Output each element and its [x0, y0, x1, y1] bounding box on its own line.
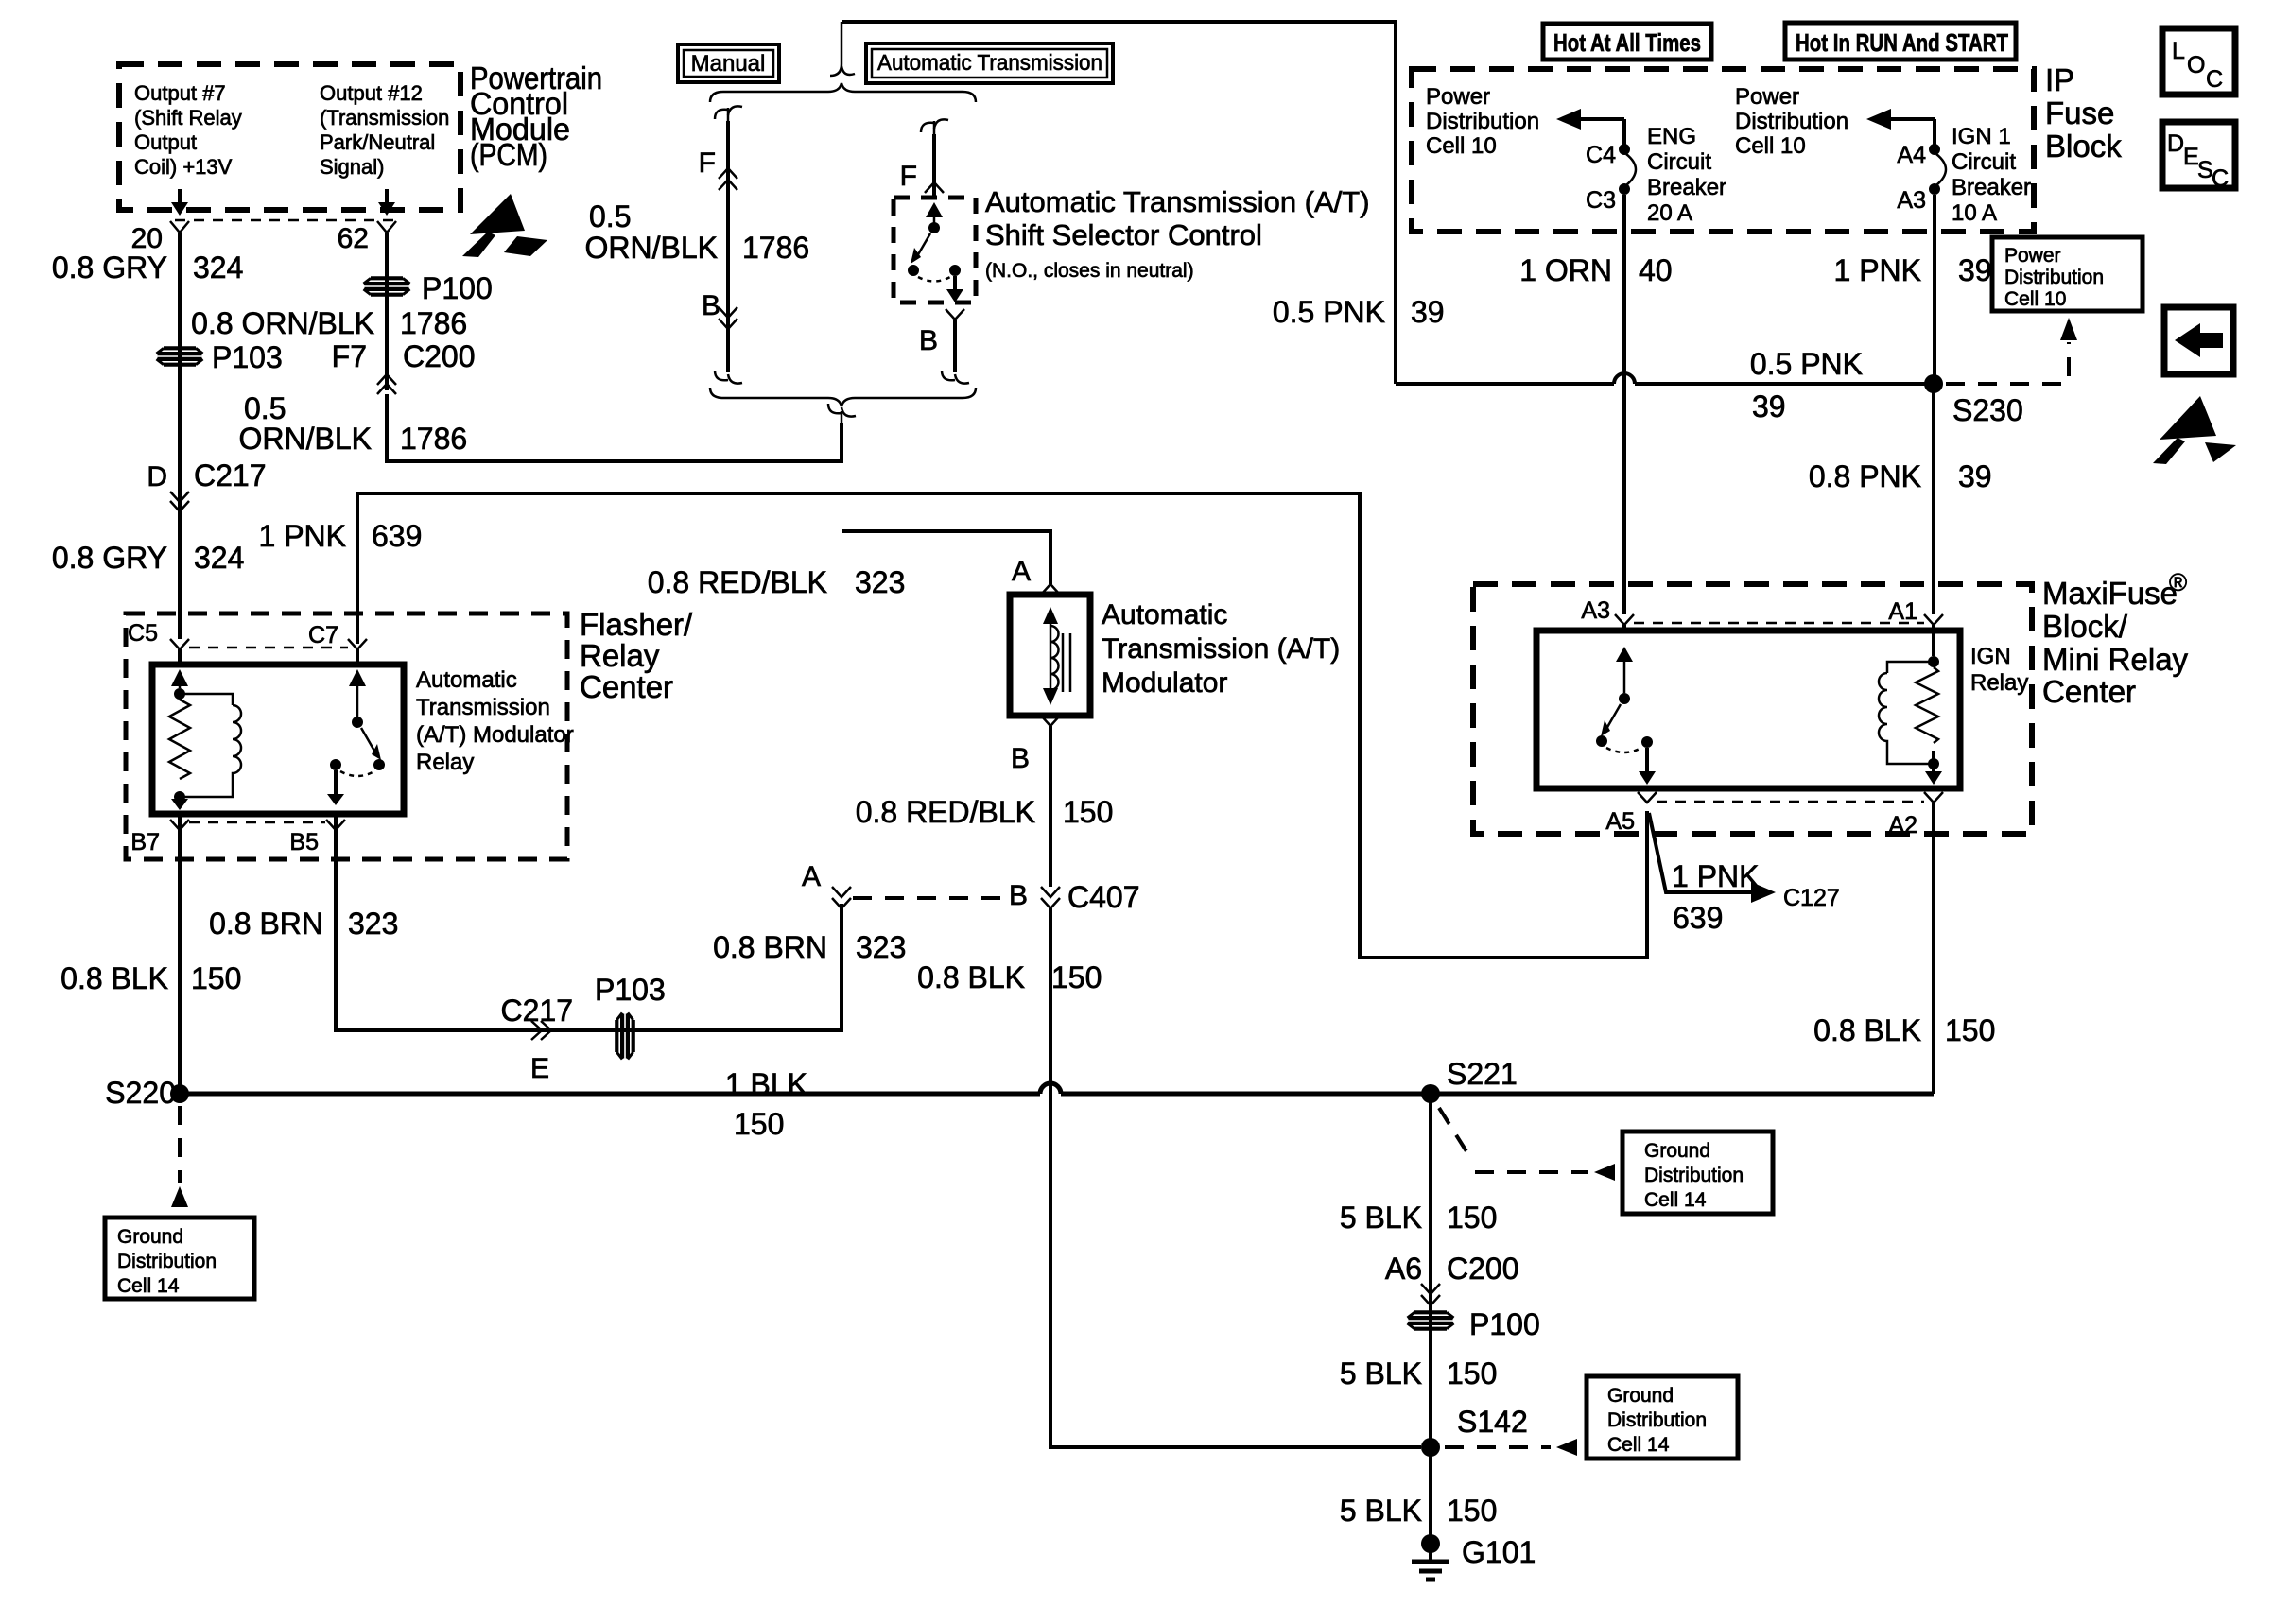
svg-text:Manual: Manual: [691, 51, 766, 77]
svg-text:C: C: [2212, 165, 2229, 192]
svg-text:0.8 BRN: 0.8 BRN: [209, 907, 323, 941]
B chevron (manual): [719, 307, 737, 329]
svg-text:L: L: [2172, 38, 2185, 64]
svg-text:Center: Center: [2042, 674, 2136, 709]
Flasher Relay Center label: [580, 607, 693, 704]
svg-text:C217: C217: [501, 993, 574, 1028]
AT branch wire lower: [953, 323, 957, 372]
svg-text:150: 150: [1051, 960, 1102, 994]
flasher top pin dashed line: [189, 647, 348, 649]
svg-text:C5: C5: [128, 620, 158, 647]
svg-text:Distribution: Distribution: [1426, 109, 1539, 134]
svg-text:Distribution: Distribution: [2004, 267, 2104, 288]
svg-text:0.5 PNK: 0.5 PNK: [1273, 295, 1385, 329]
svg-text:Relay: Relay: [580, 638, 660, 673]
svg-text:B5: B5: [289, 829, 319, 855]
svg-text:Output: Output: [134, 130, 197, 154]
svg-text:S142: S142: [1457, 1405, 1528, 1439]
svg-text:Cell 14: Cell 14: [1607, 1434, 1670, 1456]
wire 0.8 BRN 323 from B5: [336, 814, 842, 1030]
svg-text:C200: C200: [403, 339, 476, 373]
IGN Relay label: [1970, 644, 2028, 696]
wire 5 BLK 150 from S221 down: [1429, 1094, 1432, 1544]
svg-text:Distribution: Distribution: [1644, 1165, 1744, 1186]
relay label text: [416, 667, 574, 775]
Manual branch wire: [726, 121, 730, 372]
dashed ground ref from S221: [1439, 1108, 1588, 1172]
top bus wire: [842, 22, 1396, 384]
dashed ground ref from S142: [1445, 1445, 1551, 1449]
ground G101: [1412, 1534, 1536, 1580]
svg-text:E: E: [530, 1053, 549, 1084]
svg-text:F7: F7: [332, 339, 367, 373]
svg-text:Output #12: Output #12: [320, 81, 423, 105]
svg-text:324: 324: [193, 251, 243, 285]
PCM label: [470, 60, 602, 172]
svg-text:S220: S220: [105, 1076, 176, 1110]
svg-text:0.5 PNK: 0.5 PNK: [1750, 347, 1863, 381]
wire 0.5 PNK 39 horizontal with hop over ENG wire: [1396, 373, 1934, 384]
svg-text:0.8 BLK: 0.8 BLK: [917, 960, 1025, 994]
svg-text:Cell 10: Cell 10: [1426, 133, 1497, 159]
svg-text:P103: P103: [595, 973, 666, 1007]
svg-text:150: 150: [1063, 795, 1113, 829]
svg-text:1 PNK: 1 PNK: [1834, 253, 1921, 287]
svg-text:5 BLK: 5 BLK: [1340, 1356, 1422, 1391]
A5 stub to C127 arrow: [1649, 813, 1840, 935]
wire to Manual/AT brace (0.5 ORN/BLK 1786): [387, 394, 842, 461]
top brace: [710, 83, 976, 102]
bottom brace: [710, 388, 976, 406]
svg-text:1786: 1786: [742, 231, 809, 265]
C217 pin D double chevron: [170, 492, 189, 511]
svg-text:Cell 10: Cell 10: [1735, 133, 1806, 159]
arrow to Power Distribution (right): [1866, 109, 1935, 130]
relay coil + resistor (flasher): [169, 669, 241, 810]
svg-text:Park/Neutral: Park/Neutral: [320, 130, 435, 154]
Ground Distribution Cell 14 box (S142): [1587, 1376, 1738, 1459]
connector P100 grommet (bottom): [1408, 1307, 1540, 1341]
modulator box: [1010, 595, 1090, 716]
svg-text:Signal): Signal): [320, 155, 384, 179]
svg-text:Breaker: Breaker: [1647, 175, 1726, 200]
svg-text:P103: P103: [212, 340, 283, 374]
svg-text:Block: Block: [2045, 129, 2122, 164]
C200 pin F7 double chevron: [377, 374, 396, 394]
svg-text:20 A: 20 A: [1647, 200, 1692, 226]
svg-text:Ground: Ground: [1644, 1140, 1710, 1162]
svg-text:639: 639: [1673, 901, 1723, 935]
svg-text:0.8 GRY: 0.8 GRY: [52, 541, 167, 575]
svg-text:B: B: [702, 290, 720, 321]
svg-text:1786: 1786: [400, 422, 467, 456]
svg-text:1 PNK: 1 PNK: [259, 519, 346, 553]
svg-text:Circuit: Circuit: [1647, 149, 1711, 175]
svg-text:C3: C3: [1586, 187, 1616, 214]
svg-text:Power: Power: [1735, 84, 1799, 110]
svg-text:A1: A1: [1888, 598, 1917, 625]
maxifuse bottom pin dashed line: [1657, 801, 1924, 803]
connector P103 grommet (vertical): [595, 973, 666, 1060]
svg-text:Ground: Ground: [1607, 1385, 1674, 1407]
svg-text:1786: 1786: [400, 306, 467, 340]
svg-text:39: 39: [1411, 295, 1445, 329]
svg-text:Relay: Relay: [416, 750, 474, 775]
svg-text:Center: Center: [580, 669, 673, 704]
splice S221: [1421, 1084, 1440, 1103]
Flasher dashed box: [126, 613, 567, 859]
svg-text:Ground: Ground: [117, 1226, 183, 1248]
svg-text:C217: C217: [194, 458, 267, 492]
ESD symbol right column: [2153, 396, 2236, 464]
connector P100 grommet: [364, 271, 493, 305]
svg-text:Hot At All Times: Hot At All Times: [1553, 28, 1701, 57]
svg-text:0.5: 0.5: [589, 199, 631, 233]
svg-text:Modulator: Modulator: [1102, 667, 1227, 699]
maxifuse top pin dashed line: [1634, 622, 1924, 625]
wire stubs C5/C7 into relay box: [180, 649, 357, 665]
svg-text:40: 40: [1639, 253, 1673, 287]
wire 0.8 RED/BLK 150 from modulator B: [1049, 726, 1052, 887]
selector labels: [985, 185, 1370, 282]
AT branch wire upper: [932, 134, 936, 199]
Hot At All Times box: [1543, 24, 1711, 60]
svg-text:Fuse: Fuse: [2045, 95, 2114, 130]
svg-text:Automatic: Automatic: [416, 667, 517, 693]
svg-text:F: F: [900, 161, 917, 192]
PCM connector face dashed line: [175, 219, 402, 222]
svg-text:IGN 1: IGN 1: [1952, 124, 2011, 149]
A/T Shift Selector Control dashed box: [894, 198, 976, 302]
svg-text:S221: S221: [1447, 1057, 1518, 1091]
Power Distribution Cell 10 reference box: [1992, 237, 2143, 311]
splice S220: [170, 1084, 189, 1103]
svg-text:Breaker: Breaker: [1952, 175, 2031, 200]
svg-text:5 BLK: 5 BLK: [1340, 1201, 1422, 1235]
AT branch hook top: [921, 119, 948, 132]
Power Distribution Cell 10 text (left): [1426, 84, 1539, 159]
svg-text:G101: G101: [1462, 1535, 1536, 1569]
svg-text:(N.O., closes in neutral): (N.O., closes in neutral): [985, 260, 1194, 282]
splice S142: [1421, 1438, 1440, 1457]
svg-text:150: 150: [1447, 1494, 1497, 1528]
left arrow box icon: [2164, 307, 2233, 374]
svg-text:C127: C127: [1783, 885, 1840, 911]
PCM pin 62 output arrow: [378, 189, 395, 216]
svg-text:A: A: [802, 861, 821, 892]
svg-text:150: 150: [191, 961, 241, 995]
modulator label: [1102, 599, 1340, 699]
hook below bottom brace: [828, 404, 856, 417]
wire 1 PNK 639 : C7 up, east to maxifuse area: [357, 493, 1647, 958]
svg-text:323: 323: [856, 930, 906, 964]
svg-text:0.8 BLK: 0.8 BLK: [61, 961, 168, 995]
svg-text:Cell 10: Cell 10: [2004, 288, 2066, 310]
svg-text:Power: Power: [1426, 84, 1490, 110]
svg-text:C7: C7: [308, 622, 338, 648]
relay switch (flasher): [327, 669, 385, 805]
wire 0.8 BLK 150 from C407 B down across S220 to S142: [1050, 908, 1421, 1447]
svg-text:Automatic Transmission (A/T): Automatic Transmission (A/T): [985, 185, 1370, 218]
svg-text:D: D: [147, 461, 167, 492]
svg-text:Shift Selector Control: Shift Selector Control: [985, 218, 1262, 251]
svg-text:B: B: [1009, 880, 1028, 911]
dashed ground ref below S220: [178, 1106, 182, 1183]
svg-text:0.8 GRY: 0.8 GRY: [52, 251, 167, 285]
dashed reference wire from S230 to Power Distribution Cell 10 box: [1946, 382, 2071, 386]
PCM box (Powertrain Control Module): [119, 64, 460, 210]
wire 0.8 BLK 150 from A2 down: [1932, 803, 1935, 1094]
svg-text:B7: B7: [130, 829, 160, 855]
svg-text:Output #7: Output #7: [134, 81, 226, 105]
A/T modulator relay solid box: [152, 665, 404, 814]
arrow to Power Distribution (left): [1556, 109, 1624, 130]
svg-text:Cell 14: Cell 14: [117, 1275, 180, 1297]
svg-text:B: B: [919, 325, 938, 356]
pin 62 chevron: [377, 221, 396, 233]
svg-text:1 ORN: 1 ORN: [1519, 253, 1612, 287]
svg-text:IGN: IGN: [1970, 644, 2011, 669]
svg-text:Circuit: Circuit: [1952, 149, 2016, 175]
wire 1 ORN 40 from C3 down to A3 pin: [1622, 195, 1626, 614]
DESC box icon: [2162, 122, 2235, 192]
svg-text:ORN/BLK: ORN/BLK: [585, 231, 718, 265]
IP Fuse Block dashed box: [1412, 69, 2034, 232]
main ground wire with hop over modulator wire: [180, 1083, 1934, 1094]
wire 0.8 BLK 150 from B7 to S220: [178, 814, 182, 1094]
svg-text:Flasher/: Flasher/: [580, 607, 693, 642]
svg-text:C407: C407: [1067, 880, 1140, 914]
svg-text:Coil) +13V: Coil) +13V: [134, 155, 233, 179]
svg-text:Automatic: Automatic: [1102, 599, 1227, 631]
wire stubs A3/A1 into relay box: [1624, 625, 1934, 631]
Hot In RUN And START box: [1785, 23, 2016, 60]
wire 0.8 GRY 324 from pin 20: [178, 233, 182, 639]
svg-text:P100: P100: [1469, 1307, 1540, 1341]
wire 1 PNK 39 from A3 breaker down to S230: [1933, 195, 1936, 384]
svg-text:0.8 RED/BLK: 0.8 RED/BLK: [856, 795, 1035, 829]
svg-text:®: ®: [2169, 568, 2187, 596]
Ground Distribution Cell 14 box (S221): [1622, 1132, 1773, 1214]
svg-text:Distribution: Distribution: [1735, 109, 1848, 134]
svg-text:639: 639: [372, 519, 422, 553]
svg-text:A4: A4: [1897, 142, 1926, 168]
svg-text:0.8 BLK: 0.8 BLK: [1813, 1013, 1921, 1047]
svg-text:A2: A2: [1888, 812, 1917, 838]
svg-text:IP: IP: [2045, 62, 2074, 97]
svg-text:Hot In RUN And START: Hot In RUN And START: [1796, 28, 2008, 57]
Automatic Transmission box: [866, 43, 1113, 83]
MaxiFuse label: [2042, 568, 2189, 709]
svg-text:Distribution: Distribution: [117, 1251, 217, 1272]
svg-text:0.5: 0.5: [244, 391, 286, 425]
relay switch (maxifuse): [1596, 647, 1656, 785]
svg-text:323: 323: [855, 565, 905, 599]
svg-text:S230: S230: [1952, 393, 2023, 427]
svg-text:39: 39: [1958, 459, 1992, 493]
svg-text:A: A: [1012, 556, 1031, 587]
MaxiFuse dashed box: [1473, 584, 2032, 834]
Manual branch hook bottom: [715, 371, 742, 384]
svg-text:150: 150: [1447, 1356, 1497, 1391]
svg-text:0.8 ORN/BLK: 0.8 ORN/BLK: [191, 306, 374, 340]
svg-text:A5: A5: [1605, 808, 1635, 835]
svg-text:323: 323: [348, 907, 398, 941]
svg-text:ENG: ENG: [1647, 124, 1696, 149]
svg-text:1 PNK: 1 PNK: [1672, 859, 1759, 893]
svg-text:1 BLK: 1 BLK: [725, 1067, 807, 1101]
relay coil + resistor (IGN relay): [1879, 631, 1942, 785]
F chevron (AT): [925, 182, 944, 193]
svg-text:Transmission: Transmission: [416, 695, 550, 720]
svg-text:A6: A6: [1385, 1252, 1422, 1286]
svg-text:D: D: [2167, 130, 2184, 157]
svg-text:F: F: [699, 147, 716, 179]
svg-text:0.8 PNK: 0.8 PNK: [1809, 459, 1921, 493]
svg-text:Transmission (A/T): Transmission (A/T): [1102, 633, 1340, 665]
PCM pin 20 output arrow: [171, 189, 188, 216]
svg-text:Automatic Transmission: Automatic Transmission: [877, 50, 1102, 75]
svg-text:C200: C200: [1447, 1252, 1519, 1286]
svg-text:(Transmission: (Transmission: [320, 106, 449, 130]
Manual branch hook top: [715, 106, 742, 119]
wire 0.8 RED/BLK 323 down to C407 A: [842, 531, 1050, 584]
F chevron (manual): [719, 168, 737, 190]
svg-text:62: 62: [338, 223, 369, 254]
svg-text:Mini Relay: Mini Relay: [2042, 642, 2189, 677]
AT branch hook bottom: [942, 371, 969, 384]
svg-text:O: O: [2187, 52, 2205, 78]
Ground Distribution Cell 14 box (S220): [105, 1218, 254, 1299]
svg-text:Power: Power: [2004, 245, 2061, 267]
svg-text:Relay: Relay: [1970, 670, 2028, 696]
svg-text:150: 150: [1447, 1201, 1497, 1235]
pin 20 chevron: [170, 221, 189, 233]
svg-text:P100: P100: [422, 271, 493, 305]
svg-text:Distribution: Distribution: [1607, 1409, 1707, 1431]
svg-text:150: 150: [734, 1107, 784, 1141]
svg-text:0.8 BRN: 0.8 BRN: [713, 930, 827, 964]
svg-text:324: 324: [194, 541, 244, 575]
svg-text:Block/: Block/: [2042, 609, 2128, 644]
svg-text:150: 150: [1945, 1013, 1995, 1047]
selector switch: [908, 202, 963, 302]
svg-text:A3: A3: [1897, 187, 1926, 214]
svg-text:39: 39: [1958, 253, 1992, 287]
svg-text:5 BLK: 5 BLK: [1340, 1494, 1422, 1528]
B chevron (AT): [946, 309, 964, 320]
svg-text:39: 39: [1752, 389, 1786, 423]
Power Distribution Cell 10 text (right): [1735, 84, 1848, 159]
svg-text:A3: A3: [1581, 597, 1610, 624]
svg-text:(A/T) Modulator: (A/T) Modulator: [416, 722, 574, 748]
svg-text:C: C: [2206, 66, 2223, 93]
svg-text:MaxiFuse: MaxiFuse: [2042, 576, 2178, 611]
svg-text:(Shift Relay: (Shift Relay: [134, 106, 242, 130]
svg-text:B: B: [1011, 743, 1030, 774]
modulator coil symbol: [1043, 607, 1070, 705]
C407 connector dashed line: [853, 896, 1002, 900]
IP Fuse Block label: [2045, 62, 2122, 164]
IGN 1 circuit breaker: [1897, 119, 2031, 226]
ENG circuit breaker: [1586, 119, 1726, 226]
wire 0.8 ORN/BLK 1786 from pin 62: [385, 233, 389, 390]
Manual box: [678, 44, 779, 82]
splice S230: [1924, 374, 1943, 393]
svg-text:10 A: 10 A: [1952, 200, 1997, 226]
ESD symbol near PCM: [462, 194, 547, 257]
svg-text:Cell 14: Cell 14: [1644, 1189, 1707, 1211]
hook under top bus: [830, 22, 855, 76]
wire 0.8 PNK 39 from S230 down to A1: [1932, 384, 1935, 614]
connector P103 grommet: [157, 340, 283, 374]
IGN relay solid box: [1536, 631, 1960, 788]
flasher bottom pin dashed line: [189, 821, 325, 824]
svg-text:0.8 RED/BLK: 0.8 RED/BLK: [648, 565, 827, 599]
svg-text:ORN/BLK: ORN/BLK: [239, 422, 372, 456]
LOC box icon: [2162, 28, 2235, 95]
svg-text:(PCM): (PCM): [470, 137, 547, 172]
svg-text:C4: C4: [1586, 142, 1616, 168]
